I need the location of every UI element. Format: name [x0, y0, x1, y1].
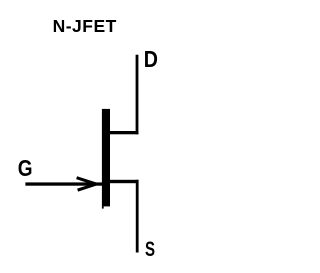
transistor J1 channel bar — [102, 109, 110, 206]
svg-text:G: G — [18, 156, 33, 181]
gate arrowhead upper barb — [77, 178, 96, 184]
gate arrowhead lower barb — [78, 184, 96, 190]
wire source horizontal — [110, 180, 139, 183]
wire source vertical — [136, 180, 139, 253]
svg-text:N-JFET: N-JFET — [53, 16, 117, 36]
wire drain horizontal — [110, 131, 139, 134]
wire drain vertical — [136, 55, 139, 135]
wire gate — [25, 182, 102, 185]
transistor J1 channel bar tail — [102, 206, 104, 208]
svg-text:D: D — [144, 46, 158, 73]
svg-text:S: S — [145, 236, 155, 260]
